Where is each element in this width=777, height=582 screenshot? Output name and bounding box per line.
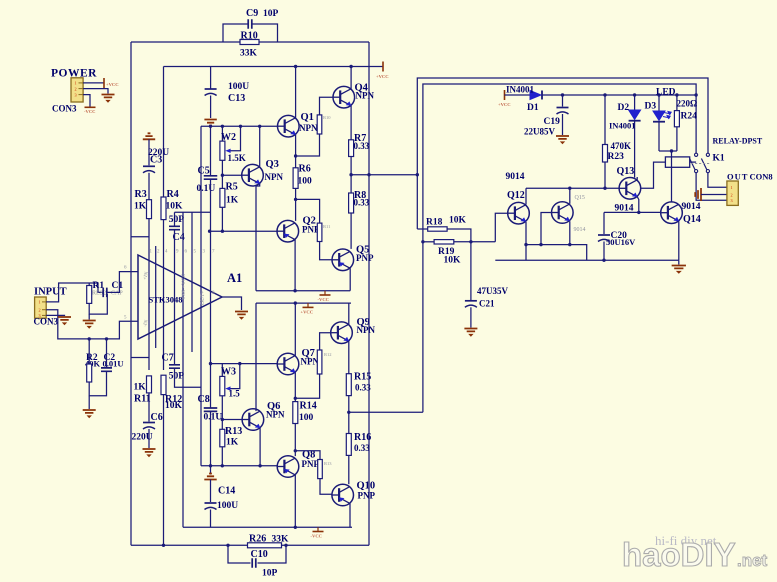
wire C9 loop bbox=[223, 24, 248, 42]
power +VCC port bbox=[103, 78, 105, 88]
wire Q8 base rail bbox=[201, 465, 277, 467]
wire R23 stub bbox=[604, 95, 606, 145]
svg-text:0.01U: 0.01U bbox=[103, 359, 124, 369]
wire bias resistor to R6 top node bbox=[296, 134, 320, 156]
svg-text:C14: C14 bbox=[218, 486, 235, 497]
wire Q10 bias to R14 bottom node bbox=[295, 451, 320, 460]
wire protection ground rail y=260.2 bbox=[495, 259, 679, 261]
svg-text:R11: R11 bbox=[323, 224, 330, 229]
wire amp pin line x=192 bbox=[191, 212, 193, 352]
svg-text:50U16V: 50U16V bbox=[606, 237, 636, 247]
svg-text:10P: 10P bbox=[263, 9, 279, 19]
wire base rail y=363.6 bbox=[211, 363, 278, 365]
capacitor C13 100U bbox=[205, 88, 217, 90]
svg-text:C9: C9 bbox=[246, 8, 258, 19]
resistor R15 0.33 bbox=[346, 374, 351, 396]
resistor R8 0.33 bbox=[349, 193, 354, 213]
svg-text:+VCC: +VCC bbox=[498, 102, 511, 107]
ground power bbox=[102, 95, 115, 103]
transistor Q9 NPN bbox=[331, 322, 353, 344]
svg-text:10K: 10K bbox=[444, 256, 462, 266]
capacitor C6 220U bbox=[143, 422, 155, 424]
svg-text:2: 2 bbox=[75, 86, 77, 91]
wire Q4 emitter to R7 bbox=[350, 106, 352, 140]
capacitor C3 220U bbox=[143, 165, 155, 167]
power bar below C13 bbox=[204, 120, 216, 126]
wire Q3 collector to rail bbox=[259, 126, 261, 167]
svg-text:R11: R11 bbox=[134, 394, 151, 405]
svg-text:100U: 100U bbox=[217, 501, 238, 511]
capacitor C8 0.1U bbox=[204, 408, 218, 411]
transistor Q3 NPN bbox=[222, 174, 241, 176]
svg-text:C10: C10 bbox=[251, 549, 268, 560]
wire Q5 emitter to -V rail bbox=[349, 268, 351, 291]
svg-text:50P: 50P bbox=[169, 215, 185, 225]
wire amp pin line x=174.5 upper with C4 bbox=[174, 212, 176, 226]
wire R23 to Q13 base bbox=[605, 162, 619, 188]
wire R5 bottom to rail bbox=[221, 207, 223, 231]
wire power pin2 to ground bbox=[83, 89, 108, 94]
resistor R14 100 bbox=[293, 402, 298, 424]
wire Q4 collector to bus bbox=[350, 67, 352, 89]
relay contacts K1 bbox=[695, 153, 698, 156]
svg-text:NPN: NPN bbox=[266, 410, 285, 420]
svg-text:33K: 33K bbox=[272, 535, 290, 545]
svg-text:R10: R10 bbox=[241, 31, 258, 42]
wire D2 stub bbox=[634, 95, 636, 110]
wire D1 anode bbox=[505, 94, 531, 96]
wire R14 to Q8 bbox=[294, 424, 296, 457]
wire central line x=210.5 to rail bbox=[210, 412, 212, 466]
svg-text:C3: C3 bbox=[150, 154, 162, 165]
wire Q10 emitter to bottom rail bbox=[349, 503, 351, 527]
wire C4 top horizontal y=212.3 bbox=[175, 211, 211, 213]
resistor R19 10K bbox=[423, 241, 434, 243]
svg-text:0.33: 0.33 bbox=[354, 443, 370, 453]
svg-text:+VCC: +VCC bbox=[301, 310, 314, 315]
resistor R12 10K bbox=[161, 375, 166, 394]
wire Q9 emitter to R15 bbox=[348, 341, 350, 374]
transistor Q7 NPN bbox=[277, 353, 299, 375]
resistor R4 bbox=[161, 197, 166, 220]
svg-text:CON8: CON8 bbox=[750, 172, 773, 182]
wire Q9 collector to +V rail bbox=[348, 303, 350, 324]
resistor R3 bbox=[147, 200, 152, 219]
svg-text:R5: R5 bbox=[226, 182, 238, 193]
ground under R1 bbox=[88, 314, 90, 319]
ground protection rail bbox=[678, 260, 680, 264]
svg-text:Q12: Q12 bbox=[507, 190, 525, 201]
wire R11 to C6 bbox=[148, 393, 150, 422]
ground under R2 bbox=[83, 410, 96, 418]
svg-text:R13: R13 bbox=[324, 461, 332, 466]
svg-text:-VCC: -VCC bbox=[318, 297, 329, 302]
svg-text:+VCC: +VCC bbox=[376, 74, 389, 79]
svg-text:D1: D1 bbox=[527, 103, 539, 113]
wire -VCC rail y=290.7 bbox=[256, 290, 350, 292]
wire Q6 emitter to rail bbox=[259, 428, 261, 466]
svg-text:33K: 33K bbox=[240, 49, 258, 59]
wire Q9 bias to R14 top node bbox=[295, 374, 319, 398]
svg-text:Q13: Q13 bbox=[617, 166, 635, 177]
resistor Q4 bias bbox=[317, 115, 322, 134]
wire outer loop to relay x=417 bbox=[417, 78, 708, 229]
svg-text:R26: R26 bbox=[249, 534, 266, 545]
wire R8 to Q5 bbox=[350, 213, 352, 249]
resistor R6 100 bbox=[293, 168, 298, 189]
svg-text:W3: W3 bbox=[221, 367, 236, 378]
svg-text:0.33: 0.33 bbox=[354, 141, 370, 151]
svg-text:1.5K: 1.5K bbox=[228, 153, 246, 163]
wire K1 right contact to OUT pin1 bbox=[708, 173, 727, 188]
transistor Q5 PNP bbox=[332, 249, 354, 271]
svg-text:3: 3 bbox=[731, 198, 733, 203]
svg-text:IN4001: IN4001 bbox=[609, 121, 635, 131]
svg-text:C5: C5 bbox=[198, 166, 210, 177]
wire collector bus to Q13 base bbox=[526, 187, 605, 189]
svg-text:C21: C21 bbox=[479, 299, 495, 309]
svg-text:R3: R3 bbox=[135, 189, 147, 200]
transistor Q13 9014 bbox=[619, 178, 641, 200]
svg-text:C8: C8 bbox=[198, 394, 210, 405]
capacitor C7 50P bbox=[169, 365, 180, 368]
transistor Q4 NPN bbox=[333, 86, 355, 108]
svg-text:100: 100 bbox=[298, 177, 313, 187]
svg-text:10K: 10K bbox=[449, 216, 467, 226]
diode D2 IN4001 bbox=[629, 110, 641, 120]
svg-text:0.1U: 0.1U bbox=[197, 184, 216, 194]
wire +VCC rail y=303.1 bbox=[256, 302, 351, 304]
wire input pin1 to R1/C1 bbox=[46, 283, 103, 302]
resistor R5 1K bbox=[220, 188, 225, 207]
svg-text:VSS-+VCC: VSS-+VCC bbox=[181, 273, 187, 300]
trimmer W3 1.5 bbox=[221, 364, 223, 377]
LED D3 bbox=[653, 111, 665, 121]
svg-text:INPUT: INPUT bbox=[34, 287, 67, 298]
transistor Q12 9014 bbox=[508, 202, 530, 224]
wire R16 to Q10 bbox=[348, 455, 350, 484]
resistor R16 0.33 bbox=[346, 434, 351, 456]
resistor R13 1K bbox=[220, 429, 225, 447]
wire W2 to Q3 base node bbox=[221, 160, 223, 188]
power -VCC port bbox=[85, 106, 96, 108]
svg-text:9014: 9014 bbox=[506, 172, 525, 182]
ground under C21 bbox=[464, 329, 477, 337]
svg-text:47U35V: 47U35V bbox=[477, 286, 508, 296]
svg-text:2: 2 bbox=[731, 192, 733, 197]
svg-text:PNP: PNP bbox=[302, 459, 320, 469]
svg-text:22U85V: 22U85V bbox=[524, 127, 555, 137]
power -VCC port on rail bbox=[324, 291, 326, 295]
svg-text:1: 1 bbox=[39, 300, 41, 305]
resistor R26 33K bbox=[248, 543, 282, 548]
svg-text:C13: C13 bbox=[228, 93, 245, 104]
wire Q2 emitter to -V rail bbox=[294, 240, 296, 291]
resistor Q10 bias bbox=[318, 460, 323, 479]
wire C14 stem bbox=[210, 480, 212, 503]
wire C14 stub below rail bbox=[210, 466, 212, 475]
svg-text:IN4001: IN4001 bbox=[506, 85, 535, 95]
transistor Q10 PNP bbox=[332, 484, 354, 506]
wire Q2 base rail bbox=[210, 230, 277, 232]
svg-text:RELAY-DPST: RELAY-DPST bbox=[713, 137, 763, 146]
wire R24 down to LED junction bbox=[676, 127, 678, 151]
wire Q13 emitter to Q14 base node bbox=[637, 197, 639, 213]
svg-text:NPN: NPN bbox=[265, 172, 284, 182]
wire R2/C2 bottom to ground bbox=[89, 372, 106, 396]
svg-text:R10: R10 bbox=[323, 115, 331, 120]
wire A1 output bbox=[222, 297, 242, 310]
wire C13 stub bbox=[210, 67, 212, 90]
svg-text:D3: D3 bbox=[645, 102, 657, 112]
wire relay coil left to Q13 bbox=[641, 162, 665, 188]
svg-text:NPN: NPN bbox=[357, 325, 376, 335]
power +VCC port on rail bbox=[307, 303, 309, 307]
wire C7 bottom corner bbox=[175, 369, 202, 388]
power bar above C3 bbox=[143, 133, 155, 139]
wire protection bus y=95 bbox=[542, 94, 696, 96]
wire central signal line x=210.5 upper bbox=[210, 126, 212, 175]
svg-text:1K: 1K bbox=[134, 202, 147, 212]
svg-text:-VCC: -VCC bbox=[311, 534, 322, 539]
svg-text:K1: K1 bbox=[713, 154, 725, 164]
svg-text:R24: R24 bbox=[681, 112, 698, 122]
wire Q12 base leg bbox=[495, 213, 507, 242]
svg-text:R23: R23 bbox=[608, 152, 625, 162]
wire Q7 collector to +V rail bbox=[294, 303, 296, 356]
wire Q15 collector bbox=[569, 188, 571, 204]
svg-text:NPN: NPN bbox=[356, 91, 375, 101]
wire R7 to output node bbox=[350, 157, 352, 194]
svg-text:NPN: NPN bbox=[301, 357, 320, 367]
capacitor C10 bbox=[252, 558, 256, 568]
wire Q1 collector to bus bbox=[295, 67, 297, 118]
wire Q7 emitter to R14 bbox=[294, 372, 296, 401]
capacitor C20 50U16V bbox=[603, 212, 605, 234]
wire amp pin line x=201 bbox=[200, 126, 202, 466]
svg-text:CAP: CAP bbox=[111, 291, 123, 297]
transistor Q6 NPN bbox=[222, 419, 242, 421]
connector CON3 input bbox=[35, 297, 47, 318]
wire W3 to Q6 base node bbox=[221, 396, 223, 430]
resistor R18 10K bbox=[417, 228, 427, 230]
svg-text:220Ω: 220Ω bbox=[677, 99, 698, 109]
transistor Q15 9014 companion bbox=[552, 202, 574, 224]
svg-text:STK3048: STK3048 bbox=[149, 295, 183, 305]
transistor Q2 PNP bbox=[277, 220, 299, 242]
wire Q9 base through bias resistor bbox=[320, 333, 331, 350]
svg-text:50P: 50P bbox=[169, 372, 185, 382]
resistor R10 bbox=[240, 40, 259, 45]
trimmer W2 1.5K bbox=[221, 126, 223, 141]
svg-text:OUT+: OUT+ bbox=[200, 291, 206, 305]
svg-text:A1: A1 bbox=[227, 271, 242, 285]
wire stub bus to R3 line bbox=[131, 236, 149, 238]
wire C3 to R3 bbox=[148, 173, 150, 200]
wire D3 down bbox=[658, 122, 660, 151]
wire C6 to ground bbox=[148, 429, 150, 448]
wire input pin2 down to -IN line bbox=[46, 310, 138, 339]
wire C21 stub bbox=[470, 242, 472, 300]
wire C3 top stem bbox=[148, 139, 150, 165]
wire upper output node y=174.7 bbox=[351, 174, 417, 176]
power +VCC port right of bus bbox=[382, 62, 384, 72]
wire Q13 collector bbox=[636, 177, 638, 180]
svg-text:Q3: Q3 bbox=[266, 159, 279, 170]
wire feedback bus y=42 right segment bbox=[259, 41, 369, 43]
svg-text:10K: 10K bbox=[166, 202, 184, 212]
wire Q12 collector bbox=[525, 188, 527, 204]
wire Q6 collector to +V rail bbox=[255, 303, 257, 411]
svg-text:1: 1 bbox=[731, 185, 733, 190]
svg-text:R18: R18 bbox=[426, 218, 443, 228]
power +VCC port at D1 bbox=[504, 90, 506, 100]
wire C1 to +IN bbox=[107, 272, 138, 293]
svg-text:R6: R6 bbox=[299, 164, 311, 175]
wire R1 bottom bbox=[89, 294, 107, 314]
wire lower output node y=412.3 bbox=[349, 411, 423, 413]
wire C14 bottom to rail bbox=[210, 510, 212, 528]
svg-text:W2: W2 bbox=[221, 132, 236, 143]
W2 wiper arrow bbox=[229, 126, 241, 151]
wire relay coil right bbox=[690, 161, 696, 163]
wire R12 bottom to loop bbox=[163, 395, 165, 546]
wire Q10 base through bias resistor bbox=[320, 479, 332, 495]
svg-text:1: 1 bbox=[75, 81, 77, 86]
svg-text:PNP: PNP bbox=[356, 253, 374, 263]
wire D3/R24 junction to Q14 collector bbox=[659, 150, 677, 152]
connector CON8 output bbox=[727, 181, 738, 205]
wire Q4 base through bias resistor bbox=[320, 97, 334, 115]
resistor R1 bbox=[88, 283, 90, 286]
wire power pin1 to +VCC bbox=[83, 82, 104, 84]
resistor R11 1K bbox=[147, 376, 152, 393]
wire emitter link y=244.6 bbox=[526, 245, 587, 261]
resistor Q9 bias bbox=[317, 350, 322, 374]
ground below A1 output bbox=[235, 312, 248, 320]
svg-text:.net: .net bbox=[737, 551, 768, 570]
wire R13 bottom to rail bbox=[221, 447, 223, 466]
wire D3 stub bbox=[658, 95, 660, 111]
wire R15 to lower output node bbox=[348, 396, 350, 434]
wire C13 bottom bbox=[210, 96, 212, 119]
svg-text:Q15: Q15 bbox=[575, 195, 585, 201]
wire amp pin line x=155.5 bbox=[155, 246, 157, 348]
wire R19 right to Q12 base leg bbox=[454, 241, 496, 243]
wire Q12 emitter to rail bbox=[525, 245, 527, 261]
svg-text:haoDIY: haoDIY bbox=[622, 536, 736, 573]
W3 wiper arrow bbox=[229, 364, 240, 389]
capacitor C19 22U85V bbox=[557, 107, 569, 109]
svg-text:1K: 1K bbox=[226, 438, 239, 448]
svg-text:0.33: 0.33 bbox=[354, 198, 370, 208]
transistor Q8 PNP bbox=[277, 456, 299, 478]
resistor Q5 bias bbox=[317, 223, 322, 241]
svg-text:R14: R14 bbox=[300, 401, 317, 412]
svg-text:+VCC: +VCC bbox=[106, 82, 119, 87]
wire R6 bottom to Q2 bbox=[295, 188, 297, 221]
wire ground to OUT pin2 bbox=[701, 194, 727, 196]
svg-text:LED: LED bbox=[656, 88, 676, 98]
svg-text:NPN: NPN bbox=[299, 123, 318, 133]
svg-text:C6: C6 bbox=[151, 412, 163, 423]
wire amp pin line x=183 bbox=[182, 212, 184, 527]
svg-text:D2: D2 bbox=[618, 103, 630, 113]
wire stub bus to R11 bbox=[131, 357, 149, 359]
wire +VCC bus y=66.5 bbox=[164, 66, 384, 68]
svg-text:C1: C1 bbox=[112, 281, 124, 291]
resistor R23 470K bbox=[603, 145, 608, 163]
svg-text:R4: R4 bbox=[167, 189, 179, 200]
transistor Q14 9014 bbox=[661, 202, 683, 224]
capacitor C14 100U bbox=[205, 502, 217, 504]
wire R4 line to amp bbox=[163, 220, 165, 370]
svg-text:R12: R12 bbox=[324, 352, 332, 357]
wire Q14 emitter to rail bbox=[678, 221, 680, 260]
wire Q5 bias to R6 bottom node bbox=[295, 199, 320, 223]
svg-text:9014: 9014 bbox=[682, 202, 701, 212]
wire inner loop to relay x=422.9 bbox=[423, 84, 696, 412]
wire bottom loop y=545.3 bbox=[131, 544, 248, 546]
wire Q5 base through bias resistor bbox=[320, 242, 332, 260]
wire R4 pin line x=161.5 bbox=[163, 67, 165, 198]
wire C4 below through amp bbox=[174, 231, 176, 365]
op-amp A1 STK3048 triangle bbox=[138, 255, 222, 339]
svg-text:1K: 1K bbox=[134, 383, 147, 393]
svg-text:1K: 1K bbox=[226, 196, 239, 206]
capacitor C5 0.1U bbox=[204, 176, 218, 179]
svg-text:C19: C19 bbox=[544, 117, 561, 127]
wire Q1 emitter to R6 bbox=[295, 135, 297, 168]
wire C10 loop bbox=[228, 545, 251, 563]
ground at OUT connector bbox=[695, 188, 701, 201]
svg-text:Q14: Q14 bbox=[683, 214, 701, 225]
wire feedback bus y=42 left segment bbox=[131, 41, 240, 43]
wire input pin3 to ground bbox=[46, 314, 64, 317]
ground under C19 bbox=[556, 136, 569, 144]
wire Q12 emitter bbox=[525, 222, 527, 245]
wire C20 to rail bbox=[603, 242, 605, 261]
svg-text:2: 2 bbox=[39, 308, 41, 313]
svg-text:100: 100 bbox=[299, 413, 314, 423]
wire C19 to ground bbox=[562, 114, 564, 135]
svg-text:10P: 10P bbox=[262, 569, 278, 578]
wire Q14 base rail bbox=[604, 211, 660, 213]
resistor R7 0.33 bbox=[349, 140, 354, 157]
wire base rail y=126.3 bbox=[201, 125, 278, 127]
wire C21 to ground bbox=[470, 307, 472, 327]
svg-text:Q1: Q1 bbox=[301, 112, 314, 123]
wire left bus x=131 bbox=[130, 42, 132, 545]
wire power pin3 to -VCC bbox=[83, 95, 90, 107]
wire K1 left contact to OUT pin3 bbox=[696, 173, 727, 201]
svg-text:470K: 470K bbox=[611, 141, 632, 151]
wire central line x=210.5 mid bbox=[210, 180, 212, 408]
wire R18 right bbox=[447, 229, 471, 242]
diode D1 IN4001 bbox=[530, 91, 541, 100]
svg-text:3: 3 bbox=[75, 92, 77, 97]
wire Q15 base stub bbox=[541, 213, 552, 245]
svg-text:100U: 100U bbox=[228, 82, 249, 92]
relay K1 coil bbox=[665, 157, 689, 167]
transistor Q1 NPN bbox=[278, 115, 300, 137]
svg-text:PNP: PNP bbox=[358, 491, 376, 501]
wire C19 stub bbox=[562, 95, 564, 107]
wire R3 bottom to amp pin bbox=[148, 219, 150, 370]
wire Q3 emitter down bbox=[256, 184, 260, 291]
capacitor C4 50P bbox=[169, 226, 180, 229]
wire Q8 emitter to bottom rail bbox=[294, 475, 296, 527]
